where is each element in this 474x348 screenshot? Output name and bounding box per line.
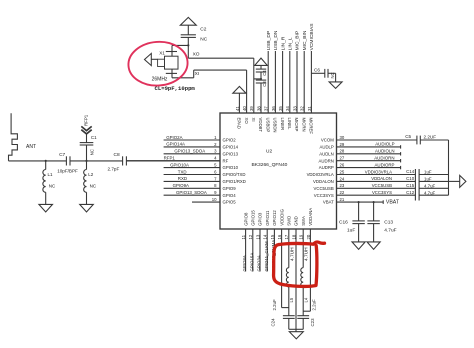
wire XI bbox=[171, 73, 173, 77]
svg-text:2.2uF: 2.2uF bbox=[312, 299, 317, 311]
ground L1 bbox=[39, 204, 53, 212]
net GPIO8A pin 11 bbox=[245, 229, 247, 272]
node XO junction bbox=[187, 44, 189, 46]
net AUDIORP bbox=[337, 167, 401, 169]
wire right bus bbox=[448, 140, 450, 195]
svg-text:MICRN: MICRN bbox=[301, 118, 306, 132]
wire VCC3SYS bbox=[337, 194, 416, 196]
svg-text:GPIO2: GPIO2 bbox=[223, 138, 237, 143]
svg-text:VBAT: VBAT bbox=[386, 200, 400, 206]
net USB_DP pin 37 bbox=[267, 51, 269, 113]
capacitor C1 bbox=[86, 145, 88, 161]
wire C5 to bus bbox=[420, 139, 448, 141]
node VBAT C13 bbox=[373, 201, 375, 203]
ground C13 bbox=[367, 242, 380, 249]
svg-text:C24: C24 bbox=[271, 318, 276, 327]
power port VDDBT bbox=[255, 58, 268, 65]
svg-text:GPIO2A: GPIO2A bbox=[166, 135, 182, 140]
svg-text:21: 21 bbox=[340, 197, 345, 202]
wire VDDANA pin20 bbox=[309, 229, 311, 311]
capacitor C5 bbox=[416, 136, 418, 145]
svg-text:L5: L5 bbox=[289, 297, 294, 302]
svg-text:C7: C7 bbox=[59, 152, 65, 158]
svg-text:LIN_R: LIN_R bbox=[280, 36, 286, 50]
net LIN_R pin 35 bbox=[282, 51, 284, 113]
wire VDDALON bbox=[337, 180, 416, 182]
wire GND pin18 bbox=[295, 229, 297, 332]
svg-text:RF: RF bbox=[223, 158, 229, 163]
svg-text:4.7UH: 4.7UH bbox=[304, 247, 310, 261]
wire VDDIO3VRLA bbox=[337, 174, 416, 176]
net GPIO3A pin 13 bbox=[259, 229, 261, 272]
svg-text:USBDN: USBDN bbox=[273, 118, 278, 133]
capacitor C4 bbox=[260, 65, 262, 69]
svg-text:4.7uF: 4.7uF bbox=[424, 190, 436, 195]
svg-text:VDDANA: VDDANA bbox=[308, 208, 313, 226]
svg-text:LINER: LINER bbox=[280, 118, 285, 131]
node RF junction C1/L2 bbox=[85, 160, 87, 162]
svg-text:NC: NC bbox=[200, 37, 207, 43]
svg-text:GPIO15: GPIO15 bbox=[251, 210, 256, 226]
svg-text:C15: C15 bbox=[406, 183, 415, 188]
wire RF main bbox=[9, 160, 67, 162]
svg-text:AUDLP: AUDLP bbox=[319, 145, 333, 150]
wire EPAD bbox=[238, 93, 240, 113]
svg-text:RFP1: RFP1 bbox=[164, 156, 176, 161]
svg-text:40: 40 bbox=[242, 106, 247, 111]
svg-text:C4: C4 bbox=[262, 70, 267, 76]
svg-text:VCC3SYS: VCC3SYS bbox=[314, 193, 334, 198]
svg-text:VBAT: VBAT bbox=[323, 200, 334, 205]
svg-text:SWD: SWD bbox=[287, 216, 292, 226]
svg-text:XO: XO bbox=[193, 52, 200, 58]
net MIC_BIP pin 33 bbox=[296, 51, 298, 113]
capacitor C2 bbox=[187, 25, 189, 35]
net AUDIOLP bbox=[337, 146, 401, 148]
svg-text:24: 24 bbox=[340, 176, 345, 181]
svg-text:C10: C10 bbox=[406, 176, 415, 181]
antenna ANT bbox=[9, 113, 18, 161]
svg-text:TXD: TXD bbox=[178, 169, 187, 174]
svg-text:U2: U2 bbox=[266, 149, 272, 155]
svg-text:L4: L4 bbox=[303, 297, 308, 302]
net AUDIORN bbox=[337, 160, 401, 162]
wire VBAT pin21 bbox=[337, 201, 384, 203]
capacitor C3 bbox=[260, 72, 262, 80]
svg-text:1uF: 1uF bbox=[424, 170, 432, 175]
svg-text:4.7uF: 4.7uF bbox=[424, 183, 436, 188]
inductor L5 bbox=[288, 229, 290, 268]
capacitor stack plates bbox=[414, 169, 416, 201]
svg-text:AUDRN: AUDRN bbox=[319, 158, 334, 163]
svg-text:XO: XO bbox=[244, 118, 249, 125]
svg-text:AUDRP: AUDRP bbox=[319, 165, 334, 170]
svg-text:BK3266_QFN40: BK3266_QFN40 bbox=[252, 162, 288, 168]
svg-text:MIC_BIN: MIC_BIN bbox=[302, 30, 308, 50]
svg-text:NC: NC bbox=[90, 184, 97, 189]
svg-text:4.7uF: 4.7uF bbox=[384, 228, 396, 234]
svg-text:MICREF: MICREF bbox=[309, 118, 314, 135]
svg-text:26MHz: 26MHz bbox=[152, 76, 168, 82]
crystal X1 bbox=[158, 52, 178, 74]
net GPIO11_CLKM pin 14 bbox=[266, 229, 268, 272]
svg-text:GPIO8A: GPIO8A bbox=[242, 255, 247, 271]
svg-text:GPIO12: GPIO12 bbox=[272, 210, 277, 226]
svg-text:MICRP: MICRP bbox=[294, 118, 299, 132]
net MIC_BIN pin 32 bbox=[303, 51, 305, 113]
svg-text:GND: GND bbox=[294, 216, 299, 226]
svg-text:C1: C1 bbox=[91, 135, 97, 140]
svg-text:NC: NC bbox=[49, 184, 56, 189]
svg-text:30: 30 bbox=[340, 135, 345, 140]
power port EPAD pin41 bbox=[233, 86, 246, 93]
wire cap commons bbox=[289, 328, 303, 330]
svg-text:10: 10 bbox=[212, 197, 217, 202]
ground L2 bbox=[80, 204, 94, 212]
net RFP1 off-page chevron bbox=[81, 126, 91, 130]
svg-text:GPIO3A: GPIO3A bbox=[257, 255, 262, 271]
svg-text:USB_DP: USB_DP bbox=[266, 31, 272, 51]
svg-text:GPIO15A: GPIO15A bbox=[249, 253, 254, 272]
svg-text:VCC5USB: VCC5USB bbox=[313, 186, 333, 191]
svg-text:C3: C3 bbox=[262, 81, 267, 87]
svg-text:VDDDIG: VDDDIG bbox=[279, 208, 284, 225]
svg-text:VDDIO3VRLA: VDDIO3VRLA bbox=[307, 172, 334, 177]
svg-text:LIN_L: LIN_L bbox=[288, 37, 294, 50]
svg-text:RFP1: RFP1 bbox=[84, 114, 89, 126]
svg-text:C23: C23 bbox=[310, 318, 315, 327]
svg-text:1uF: 1uF bbox=[347, 228, 355, 234]
wire VCC5USB bbox=[337, 187, 416, 189]
svg-text:VCC3SYS: VCC3SYS bbox=[372, 190, 392, 195]
svg-text:USB_DN: USB_DN bbox=[273, 30, 279, 50]
svg-text:NC: NC bbox=[90, 149, 95, 155]
net AUDIOLN bbox=[337, 153, 401, 155]
svg-text:GPIO13_SDOA: GPIO13_SDOA bbox=[174, 149, 205, 154]
svg-text:GPIO13: GPIO13 bbox=[223, 151, 239, 156]
svg-text:28: 28 bbox=[340, 149, 345, 154]
svg-text:2.2UF: 2.2UF bbox=[424, 135, 437, 140]
capacitor C7 bbox=[65, 156, 67, 165]
svg-text:C14: C14 bbox=[406, 169, 415, 174]
svg-text:29: 29 bbox=[340, 142, 345, 147]
svg-text:C16: C16 bbox=[339, 219, 348, 225]
svg-text:4.7UH: 4.7UH bbox=[289, 247, 295, 261]
svg-text:XI: XI bbox=[251, 118, 256, 122]
power port left of X1 bbox=[145, 53, 152, 65]
svg-text:26: 26 bbox=[340, 163, 345, 168]
svg-text:XI: XI bbox=[195, 71, 200, 77]
ground C16 bbox=[352, 242, 365, 249]
svg-text:X1: X1 bbox=[159, 51, 165, 56]
svg-text:MIC_BIP: MIC_BIP bbox=[295, 31, 301, 51]
svg-text:C12: C12 bbox=[406, 190, 415, 195]
inductor L2 bbox=[86, 161, 88, 170]
capacitor C24 bbox=[283, 315, 295, 317]
svg-text:SWA: SWA bbox=[301, 216, 306, 226]
svg-text:GPIO10A: GPIO10A bbox=[170, 162, 189, 167]
svg-text:LINEL: LINEL bbox=[287, 118, 292, 131]
capacitor C16 bbox=[358, 202, 360, 221]
svg-text:23: 23 bbox=[340, 183, 345, 188]
svg-text:C13: C13 bbox=[384, 219, 393, 225]
svg-text:L1: L1 bbox=[48, 172, 54, 177]
IC U2 BK3266_QFN40 body bbox=[220, 113, 337, 229]
svg-text:GPIO8: GPIO8 bbox=[243, 212, 248, 226]
net VCMICBIAS pin 31 bbox=[310, 51, 312, 113]
svg-text:RXD: RXD bbox=[178, 176, 187, 181]
wire VDDDIG pin16 bbox=[281, 229, 283, 308]
svg-text:C2: C2 bbox=[200, 26, 206, 32]
svg-text:25: 25 bbox=[340, 169, 345, 174]
svg-text:EPAD: EPAD bbox=[237, 118, 242, 129]
svg-text:C6: C6 bbox=[314, 68, 320, 73]
annotation red loop around L5 L4 bbox=[274, 242, 325, 286]
svg-text:VCC5USB: VCC5USB bbox=[372, 183, 392, 188]
svg-text:AUDIOLN: AUDIOLN bbox=[375, 149, 395, 154]
node VBAT C16 bbox=[358, 201, 360, 203]
svg-text:1uF: 1uF bbox=[424, 177, 432, 182]
svg-text:VCMICBIAS: VCMICBIAS bbox=[309, 23, 315, 51]
svg-text:VDDBT: VDDBT bbox=[258, 118, 263, 133]
capacitor C13 bbox=[373, 202, 375, 221]
svg-text:VCOM: VCOM bbox=[321, 138, 334, 143]
wire C4/C3 tap to XI column bbox=[254, 78, 261, 80]
svg-text:GPIO14A: GPIO14A bbox=[166, 142, 185, 147]
inductor L4 bbox=[302, 229, 304, 268]
svg-text:GPIO9: GPIO9 bbox=[223, 186, 237, 191]
net USB_DN pin 36 bbox=[274, 51, 276, 113]
svg-text:10pF/BPF: 10pF/BPF bbox=[57, 168, 78, 173]
svg-text:AUDIORP: AUDIORP bbox=[374, 162, 394, 167]
wire VCOM bbox=[337, 139, 417, 141]
svg-text:2.7pF: 2.7pF bbox=[108, 167, 120, 172]
svg-text:VDDALON: VDDALON bbox=[313, 179, 334, 184]
svg-text:2.2uF: 2.2uF bbox=[272, 299, 277, 311]
ground bottom bbox=[289, 332, 303, 339]
svg-text:27: 27 bbox=[340, 156, 345, 161]
svg-text:22: 22 bbox=[340, 190, 345, 195]
node RF junction L1 bbox=[45, 160, 47, 162]
svg-text:VDDALON: VDDALON bbox=[371, 176, 392, 181]
svg-text:NC: NC bbox=[330, 72, 335, 78]
net GPIO15A pin 12 bbox=[252, 229, 254, 272]
svg-text:AUDIORN: AUDIORN bbox=[374, 156, 394, 161]
wire XO bbox=[171, 45, 173, 51]
svg-text:39: 39 bbox=[249, 106, 254, 111]
svg-text:GPIO14: GPIO14 bbox=[223, 145, 239, 150]
svg-text:GPIO5: GPIO5 bbox=[223, 200, 237, 205]
svg-text:C8: C8 bbox=[114, 152, 120, 158]
net LIN_L pin 34 bbox=[289, 51, 291, 113]
capacitor C8 bbox=[122, 156, 124, 165]
svg-text:USBDP: USBDP bbox=[265, 118, 270, 133]
svg-text:L2: L2 bbox=[88, 172, 94, 177]
capacitor C6 bbox=[311, 72, 324, 74]
svg-text:C5: C5 bbox=[405, 134, 411, 139]
inductor L1 bbox=[45, 161, 47, 170]
svg-text:GPIO10: GPIO10 bbox=[223, 165, 239, 170]
net GPIO12_CMMA pin 15 bbox=[273, 229, 275, 272]
svg-text:GPIO9A: GPIO9A bbox=[173, 183, 189, 188]
power port above C2 bbox=[180, 17, 196, 25]
svg-text:GPIO0/TXD: GPIO0/TXD bbox=[223, 172, 246, 177]
svg-text:VDDIO3VRLA: VDDIO3VRLA bbox=[365, 169, 392, 174]
annotation red ellipse around X1 bbox=[127, 40, 189, 88]
svg-text:GPIO4: GPIO4 bbox=[223, 193, 237, 198]
svg-text:AUDIOLP: AUDIOLP bbox=[375, 142, 394, 147]
svg-text:GPIO3: GPIO3 bbox=[258, 212, 263, 226]
svg-text:GPIO11_CLKM: GPIO11_CLKM bbox=[264, 241, 269, 272]
svg-text:GPIO11: GPIO11 bbox=[265, 210, 270, 226]
svg-text:AUDLN: AUDLN bbox=[319, 151, 334, 156]
svg-text:GPIO13_SDOA: GPIO13_SDOA bbox=[176, 190, 207, 195]
ground C6 bbox=[329, 82, 342, 89]
capacitor C23 bbox=[297, 315, 309, 317]
power port right bbox=[449, 180, 460, 182]
svg-text:GPIO1/RXD: GPIO1/RXD bbox=[223, 179, 246, 184]
svg-text:ANT: ANT bbox=[26, 144, 36, 150]
